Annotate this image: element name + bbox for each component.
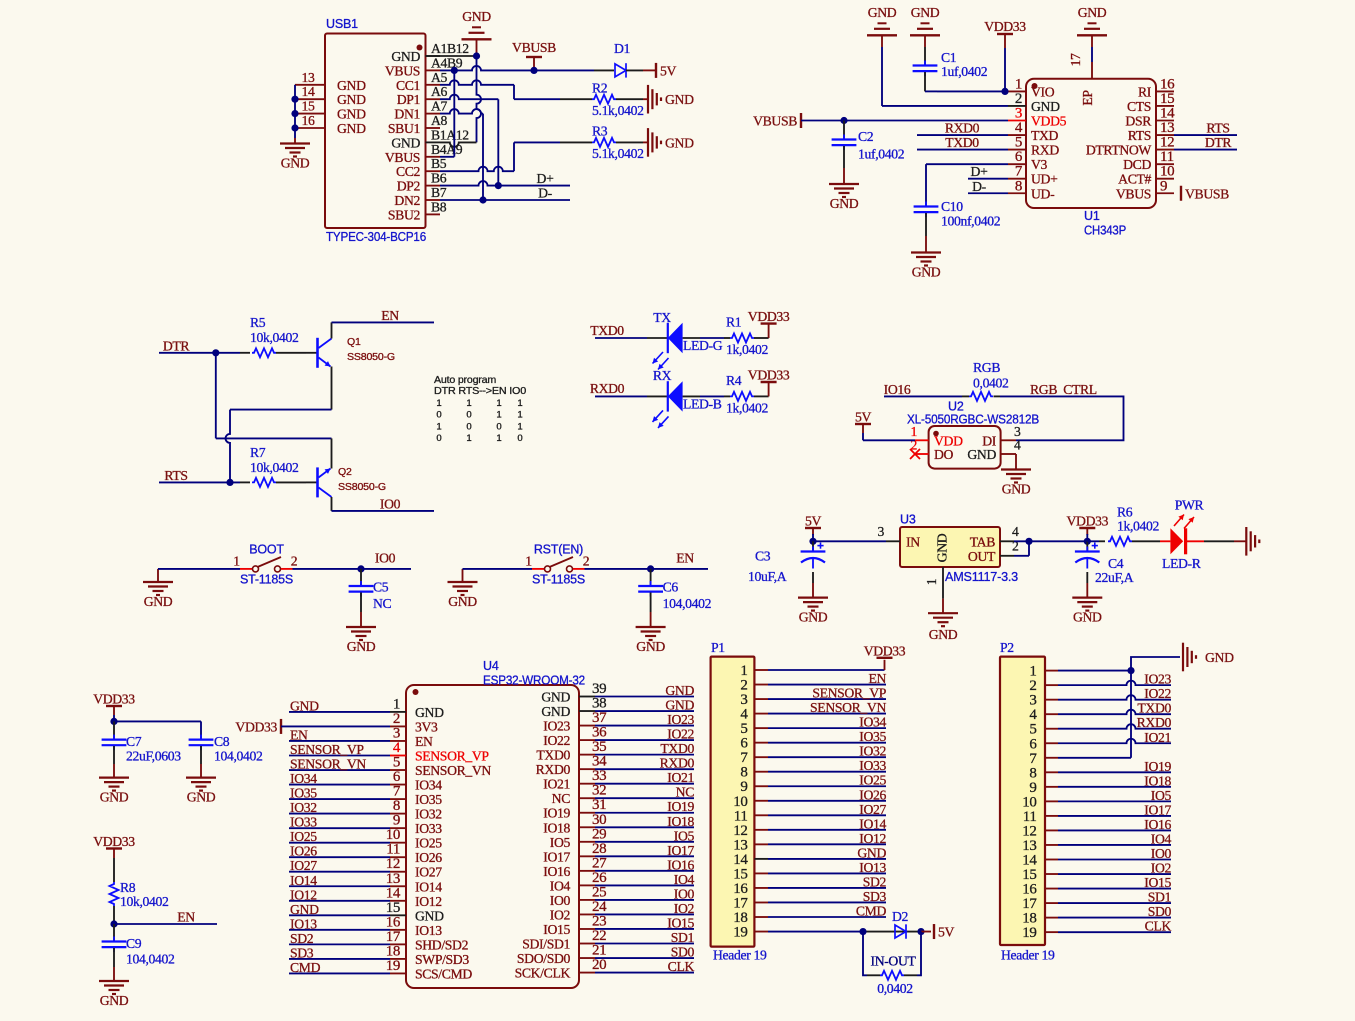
svg-text:EN: EN bbox=[868, 671, 886, 686]
U4 pin 2 (3V3) bbox=[390, 725, 406, 727]
U2 pin-1 marker dot bbox=[933, 431, 939, 437]
svg-text:SD2: SD2 bbox=[290, 931, 314, 946]
svg-text:C5: C5 bbox=[373, 580, 389, 595]
wire P1 pin 5 net IO34 bbox=[768, 727, 886, 729]
svg-text:13: 13 bbox=[302, 70, 315, 85]
svg-text:GND: GND bbox=[1002, 482, 1031, 497]
svg-text:TAB: TAB bbox=[970, 534, 995, 549]
svg-text:SD0: SD0 bbox=[671, 945, 695, 960]
wire P1 pin 7 net IO32 bbox=[768, 756, 886, 758]
svg-text:SS8050-G: SS8050-G bbox=[338, 481, 386, 493]
wire U4 pin 25 net IO0 bbox=[595, 899, 694, 901]
wire U4 pin 32 net NC bbox=[595, 797, 694, 799]
USB1 pin A8 (SBU1) bbox=[426, 127, 441, 129]
wire P2 pin 10 net IO5 bbox=[1058, 800, 1171, 802]
svg-text:VBUS: VBUS bbox=[385, 63, 420, 78]
wire U4 pin 7 net IO35 bbox=[289, 798, 390, 800]
wire D- to U1 UD- bbox=[968, 192, 1008, 194]
wire LED-R to ground bbox=[1187, 540, 1204, 542]
wire Q2 emitter to DTR net bbox=[331, 438, 333, 468]
svg-text:GND: GND bbox=[290, 698, 319, 713]
wire U4 pin 15 net GND bbox=[289, 914, 390, 916]
wire U4 pin 16 net IO13 bbox=[289, 929, 390, 931]
ground GND (C5) bbox=[346, 626, 376, 628]
wire P2 pin 19 net CLK bbox=[1058, 931, 1171, 933]
svg-text:5V: 5V bbox=[938, 925, 954, 940]
svg-text:VDD33: VDD33 bbox=[748, 309, 790, 324]
wire U4 pin 13 net IO14 bbox=[289, 885, 390, 887]
svg-text:IO23: IO23 bbox=[543, 719, 570, 734]
svg-text:DSR: DSR bbox=[1125, 114, 1152, 129]
svg-text:DP2: DP2 bbox=[397, 179, 421, 194]
svg-text:C1: C1 bbox=[941, 50, 957, 65]
svg-text:CTS: CTS bbox=[1127, 99, 1151, 114]
svg-text:TYPEC-304-BCP16: TYPEC-304-BCP16 bbox=[326, 230, 426, 244]
svg-text:EN: EN bbox=[381, 308, 399, 323]
svg-text:IO21: IO21 bbox=[1144, 730, 1171, 745]
U4 pin 7 (IO35) bbox=[390, 798, 406, 800]
svg-text:A6: A6 bbox=[431, 84, 448, 99]
svg-text:0: 0 bbox=[466, 410, 471, 421]
USB1 pin B8 (SBU2) bbox=[426, 213, 441, 215]
U4 pin 28 (IO17) bbox=[579, 855, 595, 857]
wire P2 pin 2 net IO23 bbox=[1058, 681, 1171, 686]
wire B1A12 to GND vertical bbox=[440, 142, 477, 147]
svg-text:Header 19: Header 19 bbox=[1001, 947, 1055, 962]
svg-text:22uF,A: 22uF,A bbox=[1095, 570, 1134, 585]
svg-text:IO17: IO17 bbox=[543, 849, 570, 864]
U4 pin 27 (IO16) bbox=[579, 870, 595, 872]
svg-text:Header 19: Header 19 bbox=[713, 947, 767, 962]
svg-text:IO2: IO2 bbox=[674, 901, 695, 916]
wire U4 pin 23 net IO15 bbox=[595, 928, 694, 930]
svg-text:R6: R6 bbox=[1117, 505, 1133, 520]
U4 pin-1 marker dot bbox=[413, 689, 419, 695]
U1 pin 12 (DTRTNOW) bbox=[1156, 149, 1174, 151]
wire U4 pin 21 net SD0 bbox=[595, 957, 694, 959]
svg-text:CLK: CLK bbox=[1145, 919, 1172, 934]
wire BOOT switch to IO0 node bbox=[293, 568, 412, 570]
svg-text:SBU2: SBU2 bbox=[388, 207, 421, 222]
svg-text:IO19: IO19 bbox=[543, 806, 570, 821]
svg-text:USB1: USB1 bbox=[326, 17, 358, 31]
svg-text:RI: RI bbox=[1138, 84, 1152, 99]
wire P1 pin 11 net IO27 bbox=[768, 814, 886, 816]
svg-text:1: 1 bbox=[496, 433, 501, 444]
svg-text:1k,0402: 1k,0402 bbox=[726, 400, 769, 415]
wire P2 pin 14 net IO0 bbox=[1058, 858, 1171, 860]
svg-text:VDD33: VDD33 bbox=[93, 692, 135, 707]
USB1 pin 13 (GND) bbox=[295, 84, 325, 86]
svg-text:IO4: IO4 bbox=[1151, 831, 1172, 846]
svg-text:104,0402: 104,0402 bbox=[214, 749, 263, 764]
USB1 pin A1B12 (GND) bbox=[426, 55, 441, 57]
ground GND (R2) bbox=[647, 85, 649, 114]
U4 pin 22 (SDI/SD1) bbox=[579, 943, 595, 945]
svg-text:10uF,A: 10uF,A bbox=[748, 569, 787, 584]
svg-text:RTS: RTS bbox=[1206, 121, 1229, 136]
svg-text:IO25: IO25 bbox=[290, 829, 317, 844]
svg-text:C2: C2 bbox=[858, 129, 874, 144]
svg-text:IO25: IO25 bbox=[859, 773, 886, 788]
U4 pin 6 (IO34) bbox=[390, 784, 406, 786]
U4 pin 11 (IO26) bbox=[390, 856, 406, 858]
wire P2 pin 3 net IO22 bbox=[1058, 695, 1171, 700]
svg-text:R1: R1 bbox=[726, 315, 742, 330]
wire U4 pin 5 net SENSOR_VN bbox=[289, 769, 390, 771]
svg-text:SD3: SD3 bbox=[863, 889, 887, 904]
ground GND (USB shield) bbox=[280, 142, 310, 144]
svg-text:RXD0: RXD0 bbox=[536, 762, 571, 777]
svg-text:RGB CTRL: RGB CTRL bbox=[1030, 382, 1097, 397]
svg-text:SHD/SD2: SHD/SD2 bbox=[415, 937, 469, 952]
svg-text:GND: GND bbox=[665, 92, 694, 107]
U4 pin 20 (SCK/CLK) bbox=[579, 972, 595, 974]
svg-text:UD+: UD+ bbox=[1031, 172, 1058, 187]
svg-text:B8: B8 bbox=[431, 199, 447, 214]
svg-text:GND: GND bbox=[391, 49, 420, 64]
svg-text:3V3: 3V3 bbox=[415, 719, 438, 734]
svg-text:UD-: UD- bbox=[1031, 186, 1055, 201]
svg-text:IO32: IO32 bbox=[290, 800, 317, 815]
U1 pin 8 (UD-) bbox=[1008, 192, 1026, 194]
wire U2 GND to ground bbox=[1015, 454, 1017, 470]
svg-text:IO0: IO0 bbox=[380, 496, 401, 511]
svg-text:17: 17 bbox=[1068, 53, 1083, 66]
svg-text:GND: GND bbox=[665, 135, 694, 150]
svg-text:1: 1 bbox=[924, 578, 939, 585]
svg-text:IO26: IO26 bbox=[415, 850, 442, 865]
wire DTR vertical to Q2 emitter bbox=[215, 353, 217, 439]
USB1 pin-1 marker dot bbox=[417, 45, 423, 51]
svg-text:R7: R7 bbox=[250, 445, 266, 460]
svg-text:ST-1185S: ST-1185S bbox=[532, 573, 585, 587]
svg-text:VDD5: VDD5 bbox=[1031, 114, 1067, 129]
connector USB1 TYPEC-304-BCP16 body bbox=[325, 34, 426, 229]
svg-text:IO16: IO16 bbox=[667, 857, 694, 872]
svg-text:TXD0: TXD0 bbox=[536, 748, 570, 763]
svg-text:GND: GND bbox=[1073, 610, 1102, 625]
svg-text:14: 14 bbox=[302, 84, 315, 99]
svg-text:IO34: IO34 bbox=[859, 715, 886, 730]
port 5V (after D1) bbox=[655, 63, 657, 78]
ground GND (C7) bbox=[99, 776, 129, 778]
USB1 pin A4B9 (VBUS) bbox=[426, 69, 441, 71]
svg-text:CMD: CMD bbox=[290, 960, 321, 975]
U4 pin 25 (IO0) bbox=[579, 899, 595, 901]
svg-text:IO16: IO16 bbox=[1144, 817, 1171, 832]
svg-text:IO13: IO13 bbox=[415, 923, 442, 938]
svg-text:IO2: IO2 bbox=[1151, 861, 1172, 876]
svg-text:EN: EN bbox=[290, 727, 308, 742]
svg-text:RTS: RTS bbox=[164, 468, 187, 483]
svg-text:SCS/CMD: SCS/CMD bbox=[415, 966, 472, 981]
USB1 pin B7 (DN2) bbox=[426, 199, 441, 201]
svg-text:SENSOR_VP: SENSOR_VP bbox=[812, 686, 886, 701]
U4 pin 8 (IO32) bbox=[390, 813, 406, 815]
svg-text:IO16: IO16 bbox=[543, 864, 570, 879]
svg-text:19: 19 bbox=[1022, 925, 1036, 941]
svg-text:R8: R8 bbox=[120, 880, 136, 895]
svg-text:SDI/SD1: SDI/SD1 bbox=[522, 937, 570, 952]
svg-text:IO0: IO0 bbox=[1151, 846, 1172, 861]
ic U1 CH343P body bbox=[1026, 79, 1156, 208]
svg-text:IO0: IO0 bbox=[375, 551, 396, 566]
wire U1 V3 to C10 bbox=[926, 163, 1008, 165]
svg-text:IO26: IO26 bbox=[859, 787, 886, 802]
svg-text:IO27: IO27 bbox=[859, 802, 886, 817]
U1 pin 5 (RXD) bbox=[1008, 149, 1026, 151]
wire U4 pin 11 net IO26 bbox=[289, 856, 390, 858]
U1 pin 4 (TXD) bbox=[1008, 134, 1026, 136]
svg-text:TXD0: TXD0 bbox=[590, 323, 624, 338]
wire U4 pin 28 net IO17 bbox=[595, 855, 694, 857]
svg-text:GND: GND bbox=[857, 845, 886, 860]
U1 pin 2 (GND) bbox=[1008, 105, 1026, 107]
svg-text:A7: A7 bbox=[431, 99, 448, 114]
svg-text:1: 1 bbox=[436, 421, 441, 432]
svg-text:1: 1 bbox=[436, 398, 441, 409]
wire GND net A1B12 bbox=[426, 55, 477, 57]
wire P2 pin 16 net IO15 bbox=[1058, 888, 1171, 890]
svg-text:SDO/SD0: SDO/SD0 bbox=[517, 951, 571, 966]
wire CC2 to R3 bbox=[440, 167, 514, 172]
svg-text:D2: D2 bbox=[892, 909, 909, 924]
wire 5V to U2 VDD bbox=[862, 433, 864, 440]
svg-text:IO26: IO26 bbox=[290, 844, 317, 859]
U4 pin 38 (GND) bbox=[579, 710, 595, 712]
svg-text:IO17: IO17 bbox=[1144, 802, 1171, 817]
svg-text:IO33: IO33 bbox=[415, 821, 442, 836]
svg-text:IO12: IO12 bbox=[290, 887, 317, 902]
wire U4 pin 10 net IO25 bbox=[289, 842, 390, 844]
wire U4 pin 37 net IO23 bbox=[595, 725, 694, 727]
svg-text:1: 1 bbox=[517, 398, 522, 409]
svg-text:SD2: SD2 bbox=[863, 874, 887, 889]
ground GND (P2) bbox=[1182, 643, 1184, 672]
svg-text:IO15: IO15 bbox=[667, 915, 694, 930]
wire P2 pin 5 net RXD0 bbox=[1058, 724, 1171, 729]
svg-text:RST(EN): RST(EN) bbox=[534, 543, 583, 557]
wire U4 pin 3 net EN bbox=[289, 740, 390, 742]
svg-text:IO19: IO19 bbox=[1144, 759, 1171, 774]
wire VBUSB to U1 pin3 bbox=[801, 120, 1008, 122]
U1 pin-1 marker dot bbox=[1032, 83, 1038, 89]
USB1 pin 15 (GND) bbox=[295, 113, 325, 115]
svg-text:IO35: IO35 bbox=[415, 792, 442, 807]
wire TXD0 to U1 RXD / node TXD0 bbox=[917, 149, 1008, 151]
ground GND (C3) bbox=[798, 596, 828, 598]
svg-text:0,0402: 0,0402 bbox=[973, 376, 1009, 391]
svg-text:IO0: IO0 bbox=[550, 893, 571, 908]
svg-text:EN: EN bbox=[676, 551, 694, 566]
wire P2 pin 18 net SD0 bbox=[1058, 917, 1171, 919]
svg-text:RX: RX bbox=[653, 368, 672, 383]
svg-text:DN2: DN2 bbox=[394, 193, 420, 208]
svg-text:GND: GND bbox=[541, 704, 570, 719]
svg-text:GND: GND bbox=[100, 993, 129, 1008]
U4 pin 12 (IO27) bbox=[390, 871, 406, 873]
svg-text:IO18: IO18 bbox=[667, 814, 694, 829]
svg-text:IO0: IO0 bbox=[674, 886, 695, 901]
svg-text:D-: D- bbox=[538, 186, 553, 201]
svg-text:GND: GND bbox=[415, 705, 444, 720]
wire P1 pin 18 net CMD bbox=[768, 916, 886, 918]
U1 pin 17 (EP) bbox=[1091, 62, 1093, 79]
svg-text:C7: C7 bbox=[126, 734, 142, 749]
svg-text:LED-G: LED-G bbox=[683, 338, 723, 353]
svg-text:GND: GND bbox=[935, 533, 950, 562]
svg-text:C8: C8 bbox=[214, 734, 230, 749]
svg-text:IO14: IO14 bbox=[859, 816, 886, 831]
USB1 pin A6 (DP1) bbox=[426, 98, 441, 100]
svg-text:LED-R: LED-R bbox=[1162, 556, 1202, 571]
wire U4 pin 17 net SD2 bbox=[289, 943, 390, 945]
U4 pin 35 (TXD0) bbox=[579, 754, 595, 756]
svg-text:CMD: CMD bbox=[856, 904, 887, 919]
U4 pin 5 (SENSOR_VN) bbox=[390, 769, 406, 771]
svg-text:VBUS: VBUS bbox=[1116, 186, 1151, 201]
svg-text:IO22: IO22 bbox=[543, 733, 570, 748]
svg-text:IO27: IO27 bbox=[415, 865, 442, 880]
node EN / wire R8 to C9 bbox=[110, 920, 117, 927]
svg-text:IO21: IO21 bbox=[667, 770, 694, 785]
wire DP2 / node D+ bbox=[440, 181, 498, 186]
svg-text:RXD0: RXD0 bbox=[660, 756, 695, 771]
svg-text:IO33: IO33 bbox=[859, 758, 886, 773]
svg-text:P2: P2 bbox=[1000, 640, 1014, 655]
ground GND (C2) bbox=[829, 183, 859, 185]
svg-text:GND: GND bbox=[337, 107, 366, 122]
svg-text:ST-1185S: ST-1185S bbox=[240, 573, 293, 587]
wire U3 OUT join TAB bbox=[1014, 555, 1029, 557]
U1 pin 16 (RI) bbox=[1156, 90, 1174, 92]
U1 pin 10 (ACT#) bbox=[1156, 178, 1174, 180]
U4 pin 30 (IO18) bbox=[579, 826, 595, 828]
svg-text:DCD: DCD bbox=[1123, 157, 1151, 172]
wire U4 pin 1 net GND bbox=[289, 711, 390, 713]
U4 pin 16 (IO13) bbox=[390, 929, 406, 931]
wire U4 pin 27 net IO16 bbox=[595, 870, 694, 872]
svg-text:19: 19 bbox=[733, 925, 747, 941]
svg-text:5V: 5V bbox=[855, 410, 871, 425]
svg-text:CC1: CC1 bbox=[396, 78, 421, 93]
wire U4 pin 39 net GND bbox=[595, 696, 694, 698]
svg-text:GND: GND bbox=[100, 790, 129, 805]
svg-text:C9: C9 bbox=[126, 936, 142, 951]
wire U4 pin 22 net SD1 bbox=[595, 943, 694, 945]
svg-text:DP1: DP1 bbox=[397, 92, 421, 107]
U1 pin 13 (RTS) bbox=[1156, 134, 1174, 136]
svg-text:IO14: IO14 bbox=[290, 873, 317, 888]
wire P1 pin1 to VDD33 bbox=[768, 669, 885, 671]
svg-text:IO27: IO27 bbox=[290, 858, 317, 873]
svg-text:IO18: IO18 bbox=[543, 820, 570, 835]
wire RTS from U1 pin13 bbox=[1174, 134, 1237, 136]
svg-text:SENSOR_VN: SENSOR_VN bbox=[290, 757, 366, 772]
svg-text:RGB: RGB bbox=[973, 360, 1000, 375]
wire P2 pin7 GND bbox=[1058, 757, 1131, 759]
wire RST(EN) switch to EN node bbox=[585, 568, 709, 570]
ground GND (C9) bbox=[99, 980, 129, 982]
wire DN1 to D- vertical bbox=[440, 109, 483, 114]
svg-text:GND: GND bbox=[665, 698, 694, 713]
svg-text:VBUS: VBUS bbox=[385, 150, 420, 165]
svg-text:22uF,0603: 22uF,0603 bbox=[126, 749, 181, 764]
svg-text:A5: A5 bbox=[431, 70, 448, 85]
svg-text:GND: GND bbox=[187, 790, 216, 805]
ground GND (U2) bbox=[1001, 468, 1031, 470]
U4 pin 39 (GND) bbox=[579, 696, 595, 698]
svg-text:A4B9: A4B9 bbox=[431, 55, 463, 70]
svg-text:0: 0 bbox=[496, 421, 501, 432]
svg-text:1k,0402: 1k,0402 bbox=[1117, 519, 1160, 534]
svg-text:IO34: IO34 bbox=[415, 778, 442, 793]
svg-text:IO14: IO14 bbox=[415, 879, 442, 894]
svg-text:VBUSB: VBUSB bbox=[753, 114, 797, 129]
wire P1 pin 6 net IO35 bbox=[768, 742, 886, 744]
svg-text:TXD: TXD bbox=[1031, 128, 1059, 143]
wire U4 pin 30 net IO18 bbox=[595, 826, 694, 828]
wire P2 pin 13 net IO4 bbox=[1058, 844, 1171, 846]
svg-text:IO23: IO23 bbox=[667, 712, 694, 727]
svg-text:1uf,0402: 1uf,0402 bbox=[858, 147, 905, 162]
USB1 pin A7 (DN1) bbox=[426, 113, 441, 115]
ground GND (R3) bbox=[647, 128, 649, 157]
wire P1 pin19 to 5V rail bbox=[768, 931, 863, 933]
wire P1 pin 13 net IO12 bbox=[768, 843, 886, 845]
svg-text:IO13: IO13 bbox=[859, 860, 886, 875]
svg-text:NC: NC bbox=[552, 791, 571, 806]
svg-text:GND: GND bbox=[912, 265, 941, 280]
svg-text:IO5: IO5 bbox=[1151, 788, 1172, 803]
svg-text:IO34: IO34 bbox=[290, 771, 317, 786]
svg-text:TX: TX bbox=[653, 310, 671, 325]
svg-text:8: 8 bbox=[1015, 178, 1022, 194]
USB1 pin B4A9 (VBUS) bbox=[426, 156, 441, 158]
wire U4 pin 26 net IO4 bbox=[595, 884, 694, 886]
svg-text:RXD: RXD bbox=[1031, 143, 1059, 158]
svg-text:IO33: IO33 bbox=[290, 815, 317, 830]
svg-text:NC: NC bbox=[373, 596, 392, 611]
U4 pin 19 (SCS/CMD) bbox=[390, 972, 406, 974]
svg-text:10k,0402: 10k,0402 bbox=[250, 330, 299, 345]
resistor IN-OUT 0 ohm loop bbox=[863, 932, 867, 976]
wire RGB_CTRL to U2 DI bbox=[1000, 396, 1124, 440]
svg-text:D-: D- bbox=[972, 179, 987, 194]
svg-text:SWP/SD3: SWP/SD3 bbox=[415, 952, 469, 967]
svg-text:2: 2 bbox=[291, 554, 298, 569]
svg-text:SENSOR_VP: SENSOR_VP bbox=[415, 748, 489, 763]
wire Q1 emitter to RTS net bbox=[331, 367, 333, 410]
U3 pin 2 (OUT) bbox=[1000, 555, 1014, 557]
U2 pin 2 (DO) with no-connect X bbox=[915, 453, 929, 455]
svg-text:R3: R3 bbox=[592, 124, 608, 139]
wire D+ to U1 UD+ bbox=[968, 178, 1008, 180]
U4 pin 14 (IO12) bbox=[390, 900, 406, 902]
USB1 pin B5 (CC2) bbox=[426, 170, 441, 172]
wire U4 pin 6 net IO34 bbox=[289, 784, 390, 786]
svg-text:104,0402: 104,0402 bbox=[663, 596, 712, 611]
svg-text:R4: R4 bbox=[726, 373, 742, 388]
svg-text:104,0402: 104,0402 bbox=[126, 952, 175, 967]
wire P1 pin 14 net GND bbox=[768, 858, 886, 860]
U2 pin 3 (DI) bbox=[1001, 439, 1016, 441]
wire U4 pin 34 net RXD0 bbox=[595, 768, 694, 770]
svg-text:U1: U1 bbox=[1084, 209, 1100, 223]
wire CC1 to R2 bbox=[440, 80, 514, 84]
svg-text:IO4: IO4 bbox=[674, 872, 695, 887]
